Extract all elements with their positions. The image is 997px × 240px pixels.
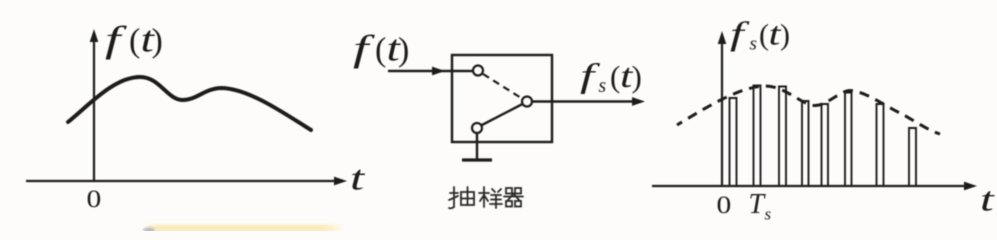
ground bar [462,158,492,161]
sample pulse 4 [802,101,809,186]
svg-text:): ) [780,19,790,52]
sample pulse 7 [877,104,884,186]
sample pulse 1 [730,98,737,186]
gray pen smudge at left tip of highlight [143,227,155,232]
dashed switch throw (open position) [483,74,522,99]
x-axis (left graph) [26,177,347,186]
char 器 (four 口 + 犬) [504,188,523,207]
y-axis (right graph) [718,31,727,186]
input wire with arrow [388,67,472,76]
svg-text:t: t [350,159,365,198]
svg-text:s: s [599,76,607,97]
svg-text:t: t [980,181,995,219]
svg-text:): ) [152,23,163,60]
output wire with arrow [532,97,645,106]
svg-text:s: s [765,205,772,224]
switch lower contact circle [472,123,482,133]
sampler box [452,55,552,142]
ground stem [476,133,478,160]
switch output contact circle [522,97,532,107]
dashed envelope curve [677,86,940,134]
svg-text:(: ( [759,19,769,52]
char 样 (木 + 羊) [479,187,502,208]
svg-text:0: 0 [87,185,102,212]
curve f(t) [68,77,311,130]
sample pulse 8 [909,128,916,186]
caption 抽样器 drawn as strokes [449,187,523,208]
switch input contact circle [473,66,483,76]
svg-text:(: ( [375,32,386,69]
x-axis (right graph) [652,182,977,191]
svg-text:(: ( [610,59,620,94]
sample pulse 3 [779,87,786,187]
svg-text:0: 0 [717,191,732,218]
sample pulse 6 [845,93,852,187]
char 抽 (hand radical + 由) [449,187,474,208]
svg-text:): ) [632,59,642,94]
sample pulse 5 [822,104,829,186]
y-axis (left graph) [90,29,99,181]
svg-text:): ) [398,32,409,69]
svg-text:s: s [750,34,757,55]
sample pulse 2 [754,86,761,187]
solid switch arm [481,104,523,126]
svg-text:(: ( [129,23,140,60]
